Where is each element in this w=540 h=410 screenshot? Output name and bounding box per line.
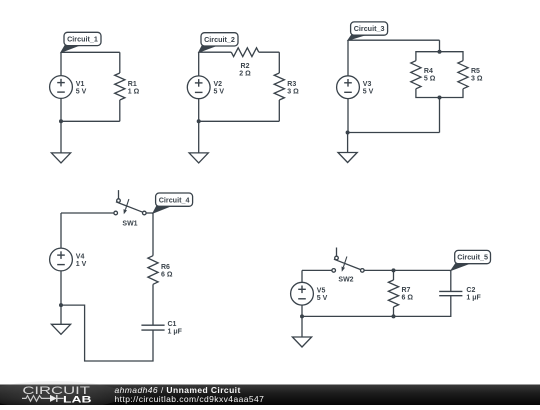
svg-text:1 Ω: 1 Ω — [128, 88, 140, 95]
svg-text:1 μF: 1 μF — [168, 329, 183, 336]
svg-text:1 V: 1 V — [76, 261, 87, 268]
svg-text:Circuit_1: Circuit_1 — [67, 35, 98, 44]
wire: circuit 5 top rail to switch — [302, 269, 332, 271]
voltage source V1 — [50, 76, 73, 99]
node: parallel top junction — [438, 50, 442, 54]
svg-text:R7: R7 — [402, 287, 411, 294]
svg-text:LAB: LAB — [63, 394, 92, 405]
wire: circuit 3 top rail — [348, 39, 440, 41]
wire: switch SW1 to corner — [146, 212, 153, 214]
svg-text:V4: V4 — [76, 253, 85, 260]
wire: V1 top lead — [60, 52, 62, 75]
voltage source V5 — [291, 282, 314, 305]
node: circuit 5 ground junction — [300, 314, 304, 318]
resistor R2 (horizontal) — [231, 48, 258, 57]
wire: circuit 3 bottom rail — [348, 132, 440, 134]
svg-text:5 Ω: 5 Ω — [424, 76, 436, 83]
wire: parallel top bracket left — [416, 52, 440, 61]
switch SW1 — [114, 190, 146, 215]
wire: switch SW2 to C2 corner — [364, 269, 451, 271]
node: R7 top junction — [392, 268, 396, 272]
node: circuit 3 ground junction — [346, 131, 350, 135]
resistor R6 — [148, 213, 158, 325]
wire: circuit 3 right drop — [439, 98, 441, 133]
voltage source V4 — [50, 248, 73, 271]
wire: circuit 2 bottom rail — [199, 120, 280, 122]
svg-text:C2: C2 — [466, 287, 475, 294]
svg-text:3 Ω: 3 Ω — [471, 76, 483, 83]
net label Circuit_2 — [199, 33, 238, 53]
node: R7 bottom junction — [392, 314, 396, 318]
svg-text:R5: R5 — [471, 68, 480, 75]
ground: circuit 1 — [51, 121, 70, 163]
ground: circuit 2 — [189, 121, 208, 163]
svg-text:R4: R4 — [424, 68, 433, 75]
svg-text:V1: V1 — [76, 81, 85, 88]
wire: C2 bottom lead and circuit 5 bottom rail — [302, 296, 451, 317]
voltage source V3 — [337, 76, 360, 99]
svg-text:C1: C1 — [168, 321, 177, 328]
net label Circuit_5 — [451, 250, 491, 270]
resistor R4 — [411, 61, 421, 89]
svg-text:2 Ω: 2 Ω — [239, 71, 251, 78]
wire: V4 top lead up — [60, 213, 62, 248]
voltage source V2 — [187, 76, 210, 99]
wire: parallel top bracket right — [440, 52, 464, 61]
svg-text:5 V: 5 V — [363, 89, 374, 96]
node: circuit 4 ground junction — [59, 303, 63, 307]
svg-text:V5: V5 — [317, 288, 326, 295]
footer logo glow — [0, 381, 123, 409]
ground: circuit 3 — [338, 133, 357, 163]
wire: V2 top lead — [198, 52, 200, 76]
resistor R1 — [115, 52, 125, 121]
svg-text:Circuit_4: Circuit_4 — [159, 195, 190, 204]
wire: circuit 1 bottom rail — [61, 120, 120, 122]
wire: parallel bottom bracket right — [440, 89, 464, 98]
svg-text:Circuit_3: Circuit_3 — [354, 24, 385, 33]
resistor R7 — [388, 270, 398, 316]
svg-text:Circuit_2: Circuit_2 — [204, 35, 235, 44]
svg-text:R6: R6 — [161, 264, 170, 271]
node: parallel bottom junction — [438, 96, 442, 100]
svg-text:R2: R2 — [241, 63, 250, 70]
net label Circuit_1 — [61, 32, 101, 52]
wire: V5 bottom lead — [301, 305, 303, 316]
wire: circuit 2 top-left segment — [199, 51, 232, 53]
svg-text:R1: R1 — [128, 81, 137, 88]
node: circuit 1 ground junction — [59, 119, 63, 123]
wire: circuit 4 top rail to switch — [61, 212, 114, 214]
svg-text:V3: V3 — [363, 81, 372, 88]
wire: V3 bottom lead — [347, 99, 349, 133]
net label Circuit_3 — [348, 22, 388, 40]
wire: circuit 1 top rail — [61, 51, 120, 53]
svg-text:3 Ω: 3 Ω — [287, 88, 299, 95]
ground: circuit 4 — [51, 305, 70, 334]
svg-text:5 V: 5 V — [317, 295, 328, 302]
wire: V1 bottom lead — [60, 98, 62, 121]
node: circuit 2 ground junction — [197, 119, 201, 123]
svg-text:6 Ω: 6 Ω — [402, 295, 414, 302]
wire: V4 bottom lead — [60, 271, 62, 305]
wire: circuit 2 top-right segment — [259, 51, 280, 53]
wire: V5 top lead up — [301, 270, 303, 282]
wire: circuit 3 top drop to parallel pair — [439, 40, 441, 52]
svg-text:5 V: 5 V — [214, 89, 225, 96]
svg-text:5 V: 5 V — [76, 88, 87, 95]
svg-text:R3: R3 — [287, 81, 296, 88]
switch SW2 — [332, 248, 364, 273]
capacitor C2 — [450, 270, 452, 291]
logo squiggle wire-resistor-diode — [22, 396, 50, 402]
svg-text:SW2: SW2 — [338, 277, 353, 284]
svg-text:V2: V2 — [214, 81, 223, 88]
capacitor C1 — [141, 325, 164, 330]
wire: V3 top lead — [347, 40, 349, 76]
svg-text:http://circuitlab.com/cd9kxv4a: http://circuitlab.com/cd9kxv4aaa547 — [115, 394, 265, 404]
wire: V2 bottom lead — [198, 99, 200, 122]
net label Circuit_4 — [153, 193, 193, 213]
resistor R3 — [274, 52, 284, 121]
wire: C1 bottom lead and bottom rail — [61, 305, 153, 361]
wire: parallel bottom bracket left — [416, 89, 440, 98]
svg-text:1 μF: 1 μF — [466, 295, 481, 302]
ground: circuit 5 — [292, 316, 311, 347]
svg-text:6 Ω: 6 Ω — [161, 271, 173, 278]
svg-text:Circuit_5: Circuit_5 — [457, 253, 488, 262]
resistor R5 — [458, 61, 468, 89]
svg-text:SW1: SW1 — [122, 220, 137, 227]
